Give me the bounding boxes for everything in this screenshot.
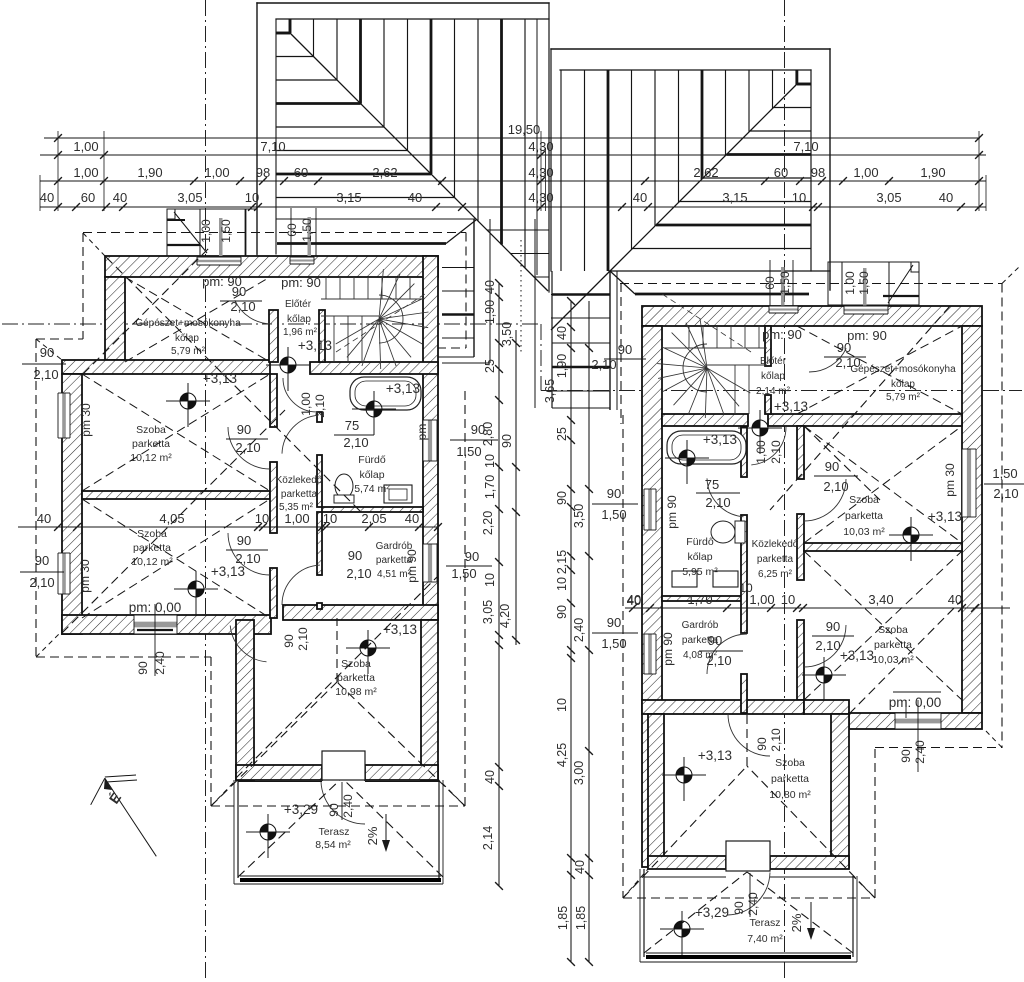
svg-text:Szoba: Szoba (136, 424, 166, 436)
window east upper (bath) (423, 420, 437, 461)
left roof overhang dashed (83, 232, 466, 234)
north arrow (91, 775, 157, 856)
dimension row 19,50 (44, 122, 983, 142)
dim row 40 4,05 10 1,00 10 2,05 40 (18, 511, 442, 531)
svg-text:parketta: parketta (132, 438, 170, 450)
svg-text:1,00: 1,00 (204, 165, 229, 180)
svg-text:1,50: 1,50 (778, 271, 792, 295)
svg-text:1,50: 1,50 (992, 466, 1017, 481)
svg-text:parketta: parketta (874, 639, 912, 651)
svg-text:parketta: parketta (281, 489, 318, 500)
svg-text:Közlekedő: Közlekedő (276, 475, 323, 486)
svg-text:90: 90 (618, 342, 632, 357)
svg-text:90: 90 (232, 284, 246, 299)
right roof corner square (797, 83, 811, 86)
left stair/elater thin wall (319, 310, 325, 362)
left roof rafters (vertical) (290, 19, 525, 268)
right furdo bottom thin wall (662, 596, 746, 601)
right roof projection dashed diagonals (623, 306, 962, 953)
svg-text:40: 40 (633, 190, 647, 205)
svg-text:40: 40 (483, 770, 497, 784)
svg-text:1,00: 1,00 (853, 165, 878, 180)
svg-text:parketta: parketta (337, 672, 375, 684)
right west windows (644, 489, 656, 530)
left roof hip diagonal (290, 33, 548, 291)
svg-text:Szoba: Szoba (775, 757, 805, 769)
svg-text:2,10: 2,10 (33, 367, 58, 382)
svg-text:1,85: 1,85 (574, 906, 588, 930)
svg-text:1,90: 1,90 (555, 354, 569, 378)
svg-text:2,40: 2,40 (572, 618, 586, 642)
left roof projection dashed diagonals (62, 247, 465, 877)
svg-text:+3,13: +3,13 (698, 748, 732, 763)
svg-text:2,14: 2,14 (481, 826, 495, 850)
top dim rows vertical extension lines (40, 131, 986, 211)
svg-text:Fürdő: Fürdő (686, 536, 714, 548)
svg-text:2,62: 2,62 (693, 165, 718, 180)
left stair window dims above wall (285, 208, 316, 256)
svg-text:4,25: 4,25 (555, 743, 569, 767)
left roof corner square (276, 32, 290, 35)
svg-text:3,00: 3,00 (572, 761, 586, 785)
right stair thin wall (765, 326, 771, 366)
left roof joists (horizontal, NW triangle) (276, 33, 455, 198)
left WC (335, 474, 353, 498)
right building east wall (962, 326, 982, 713)
svg-text:60: 60 (774, 165, 788, 180)
left building east wall (423, 256, 438, 620)
axis dash-dot vertical x=784.5 (784, 0, 786, 982)
svg-text:2,10: 2,10 (235, 440, 260, 455)
svg-text:+3,13: +3,13 (203, 371, 237, 386)
svg-text:7,10: 7,10 (793, 139, 818, 154)
svg-text:40: 40 (948, 592, 962, 607)
right WC (711, 521, 735, 543)
svg-text:pm 30: pm 30 (943, 463, 957, 497)
svg-text:pm 90: pm 90 (661, 632, 675, 666)
right stair window dims above wall (763, 260, 793, 306)
svg-text:40: 40 (573, 860, 587, 874)
svg-text:1,00: 1,00 (73, 165, 98, 180)
svg-text:1,96 m²: 1,96 m² (283, 327, 318, 338)
svg-text:10: 10 (323, 511, 337, 526)
svg-text:90: 90 (237, 422, 251, 437)
svg-text:2,40: 2,40 (913, 740, 927, 764)
svg-text:pm: 90: pm: 90 (762, 327, 802, 342)
svg-text:40: 40 (405, 511, 419, 526)
svg-text:pm 30: pm 30 (79, 403, 93, 437)
svg-text:3,05: 3,05 (876, 190, 901, 205)
svg-text:6,25 m²: 6,25 m² (758, 569, 793, 580)
right building top wall (642, 306, 982, 326)
svg-text:1,70: 1,70 (483, 475, 497, 499)
svg-text:Szoba: Szoba (137, 528, 167, 540)
svg-text:10: 10 (483, 454, 497, 468)
dimension fraction lines (window/door labels) (20, 301, 1024, 692)
svg-text:Szoba: Szoba (878, 624, 908, 636)
right bottom room bottom wall (648, 856, 726, 869)
dim row 40 1,70 1,00 10 3,40 40 (625, 592, 1010, 612)
svg-text:pm: pm (415, 424, 429, 441)
svg-text:Terasz: Terasz (750, 917, 781, 929)
left building gardrob bottom wall / step (283, 605, 438, 620)
svg-text:Közlekedő: Közlekedő (752, 539, 799, 550)
svg-text:Gardrób: Gardrób (682, 620, 719, 631)
svg-text:1,50: 1,50 (456, 444, 481, 459)
svg-text:3,05: 3,05 (177, 190, 202, 205)
svg-text:7,40 m²: 7,40 m² (747, 933, 783, 945)
level markers right (665, 440, 709, 484)
svg-text:pm 90: pm 90 (665, 495, 679, 529)
svg-text:pm: 90: pm: 90 (847, 328, 887, 343)
svg-text:90: 90 (348, 548, 362, 563)
middle-left dim chain (481, 279, 520, 890)
left gardrob west wall (317, 512, 322, 575)
svg-text:90: 90 (136, 661, 150, 675)
right roof outer rect (551, 49, 830, 290)
svg-text:parketta: parketta (757, 554, 794, 565)
svg-text:2,10: 2,10 (235, 551, 260, 566)
svg-text:+3,13: +3,13 (298, 338, 332, 353)
svg-text:1,50: 1,50 (300, 218, 314, 242)
svg-text:40: 40 (483, 280, 497, 294)
svg-text:4,20: 4,20 (498, 604, 512, 628)
svg-text:2,20: 2,20 (481, 511, 495, 535)
svg-text:60: 60 (285, 223, 299, 237)
right building west wall (642, 326, 662, 867)
svg-text:+3,29: +3,29 (695, 905, 729, 920)
svg-text:2%: 2% (365, 826, 380, 845)
svg-text:98: 98 (811, 165, 825, 180)
window west upper (58, 393, 70, 438)
right bathtub (667, 431, 746, 464)
svg-text:90: 90 (899, 749, 913, 763)
svg-text:3,50: 3,50 (572, 504, 586, 528)
svg-text:60: 60 (81, 190, 95, 205)
right corridor wall vertical (797, 426, 804, 479)
svg-text:+3,13: +3,13 (774, 399, 808, 414)
svg-text:pm: 0,00: pm: 0,00 (889, 695, 942, 710)
svg-text:+3,13: +3,13 (703, 432, 737, 447)
svg-text:98: 98 (256, 165, 270, 180)
left building room1/eloter divider (269, 310, 278, 362)
left stair winder radials (336, 269, 429, 369)
svg-text:2,80: 2,80 (481, 422, 495, 446)
svg-text:1,00: 1,00 (299, 392, 313, 416)
svg-text:90: 90 (708, 633, 722, 648)
right chimney + window dim structure above top wall (828, 262, 919, 306)
svg-text:Gépészet+mosókonyha: Gépészet+mosókonyha (850, 364, 956, 375)
svg-text:kőlap: kőlap (687, 551, 712, 563)
svg-text:1,50: 1,50 (857, 271, 871, 295)
dashed X diagonals in rooms (82, 277, 962, 700)
right roof overhang dashed (620, 283, 1002, 285)
level markers left (166, 383, 210, 427)
right bottom room west wall (648, 714, 664, 867)
window west lower (58, 553, 70, 594)
svg-text:2,10: 2,10 (993, 486, 1018, 501)
left stair treads upper flight (321, 277, 423, 362)
svg-text:5,79 m²: 5,79 m² (886, 392, 921, 403)
svg-text:2,10: 2,10 (296, 627, 310, 651)
svg-text:2,10: 2,10 (313, 394, 327, 418)
right roof hip diagonal (551, 84, 797, 330)
left bath bottom thin wall (322, 507, 423, 512)
svg-text:40: 40 (113, 190, 127, 205)
svg-text:Fürdő: Fürdő (358, 454, 386, 466)
svg-text:40: 40 (939, 190, 953, 205)
svg-text:1,50: 1,50 (451, 566, 476, 581)
right roof stair-bay edges (551, 271, 553, 408)
svg-text:60: 60 (763, 276, 777, 290)
svg-text:2,05: 2,05 (361, 511, 386, 526)
svg-text:90: 90 (607, 486, 621, 501)
svg-text:90: 90 (755, 737, 769, 751)
left building corridor wall vertical (270, 374, 277, 427)
right overhang dashed outline (623, 266, 1020, 898)
door jamb rect right terrace (726, 841, 770, 871)
left roof eave bold line (277, 242, 446, 245)
left building interior wall rooms2/3 (82, 491, 270, 499)
right stair winder radials (657, 292, 751, 418)
svg-text:2,10: 2,10 (769, 440, 783, 464)
svg-text:2,62: 2,62 (372, 165, 397, 180)
svg-text:90: 90 (732, 901, 746, 915)
svg-text:25: 25 (555, 427, 569, 441)
left chimney + window dim structure above top wall (167, 209, 257, 256)
svg-text:+3,13: +3,13 (383, 622, 417, 637)
left roof SE wedge joists (487, 230, 549, 277)
left washbasin (384, 485, 412, 503)
svg-text:2%: 2% (789, 913, 804, 932)
svg-text:1,00: 1,00 (843, 271, 857, 295)
svg-text:pm 30: pm 30 (78, 559, 92, 593)
svg-text:3,15: 3,15 (336, 190, 361, 205)
svg-text:10,12 m²: 10,12 m² (130, 452, 172, 464)
left roof inner eave right line (536, 19, 538, 275)
svg-text:10: 10 (781, 592, 795, 607)
svg-text:10: 10 (483, 573, 497, 587)
right top windows (769, 306, 798, 313)
right roof eave bold line (635, 293, 809, 296)
svg-text:1,00: 1,00 (199, 219, 213, 243)
right roof rafters (vertical) (561, 70, 796, 271)
right east window (962, 449, 976, 517)
svg-text:1,90: 1,90 (137, 165, 162, 180)
dimension row 4 : 40 60 40 3,05 10 3,15 40 4,30 40 3,15 10 3,05 40 (40, 190, 986, 211)
svg-text:90: 90 (607, 615, 621, 630)
svg-text:3,40: 3,40 (868, 592, 893, 607)
svg-text:90: 90 (826, 619, 840, 634)
svg-text:Szoba: Szoba (849, 494, 879, 506)
left roof bay joists (442, 267, 474, 269)
svg-text:Előtér: Előtér (760, 356, 787, 367)
right rooms divider (804, 543, 962, 551)
right terrace (640, 869, 857, 962)
svg-text:90: 90 (825, 459, 839, 474)
dimension row 3 : 1,00 1,90 1,00 98 60 2,62 4,30 2,62 60 98 1,00 1,90 (40, 165, 986, 185)
svg-text:90: 90 (555, 605, 569, 619)
right gardrob bottom wall (642, 700, 804, 714)
svg-text:3,65: 3,65 (543, 379, 557, 403)
svg-text:3,15: 3,15 (722, 190, 747, 205)
svg-text:90: 90 (555, 491, 569, 505)
right interior divider below stair (662, 414, 748, 426)
left bottom room bottom wall (236, 765, 322, 780)
axis dash-dot vertical x=205.5 (205, 0, 207, 982)
svg-text:1,90: 1,90 (920, 165, 945, 180)
window W1 top wall (197, 257, 241, 265)
svg-text:5,74 m²: 5,74 m² (354, 483, 390, 495)
svg-text:1,00: 1,00 (284, 511, 309, 526)
left roof outer rect (257, 3, 549, 292)
svg-text:Terasz: Terasz (319, 826, 350, 838)
svg-text:pm: 90: pm: 90 (281, 275, 321, 290)
svg-text:kőlap: kőlap (891, 379, 915, 390)
svg-text:75: 75 (345, 418, 359, 433)
svg-text:2,10: 2,10 (706, 653, 731, 668)
left bath corridor wall (317, 412, 322, 422)
svg-text:10: 10 (555, 698, 569, 712)
svg-text:19,50: 19,50 (508, 122, 541, 137)
left building bottom wall (left block) (62, 615, 271, 634)
door arcs right (809, 348, 846, 372)
svg-text:pm 90: pm 90 (405, 549, 419, 583)
svg-text:10: 10 (792, 190, 806, 205)
right wall piece corridor/SE step (804, 700, 849, 714)
svg-text:2,14 m²: 2,14 m² (756, 386, 791, 397)
svg-text:10: 10 (555, 577, 569, 591)
svg-text:10,98 m²: 10,98 m² (335, 686, 377, 698)
left overhang dashed outline (36, 233, 465, 806)
svg-text:2,10: 2,10 (346, 566, 371, 581)
right roof joists (horizontal NE triangle) (633, 84, 812, 249)
window bottom wall left block (134, 615, 177, 634)
svg-text:10,03 m²: 10,03 m² (872, 654, 914, 666)
axis dash-dot horizontal left y=324 with jog to right y=390.5 (2, 323, 541, 325)
left building west wall upper (105, 277, 125, 360)
right washbasins (672, 571, 697, 587)
left bottom room east wall (421, 620, 438, 780)
left bottom room west wall (236, 620, 254, 780)
svg-text:40: 40 (555, 326, 569, 340)
svg-text:7,10: 7,10 (260, 139, 285, 154)
svg-text:1,50: 1,50 (219, 219, 233, 243)
right window bottom block (895, 713, 941, 729)
svg-text:2,15: 2,15 (555, 550, 569, 574)
svg-text:2,10: 2,10 (343, 435, 368, 450)
svg-text:parketta: parketta (845, 510, 883, 522)
svg-text:kőlap: kőlap (761, 371, 785, 382)
svg-text:25: 25 (483, 359, 497, 373)
svg-text:1,00: 1,00 (754, 440, 768, 464)
middle-right dim chain (543, 297, 593, 966)
svg-text:3,05: 3,05 (481, 600, 495, 624)
svg-text:2,10: 2,10 (705, 495, 730, 510)
dimension row 2 : 1,00 7,10 4,30 7,10 (40, 139, 986, 159)
svg-text:90: 90 (237, 533, 251, 548)
right bottom block wall under szoba2 (849, 713, 982, 729)
svg-text:Előtér: Előtér (285, 299, 312, 310)
svg-text:1,90: 1,90 (483, 300, 497, 324)
svg-text:1,85: 1,85 (556, 906, 570, 930)
right bottom room east wall (831, 714, 849, 867)
left building top wall (105, 256, 438, 277)
left building stair bottom wall (310, 362, 438, 374)
svg-text:+3,13: +3,13 (386, 381, 420, 396)
svg-text:8,54 m²: 8,54 m² (315, 839, 351, 851)
svg-text:1,00: 1,00 (73, 139, 98, 154)
right roof SW wedge joists (551, 295, 587, 319)
svg-text:+3,13: +3,13 (211, 564, 245, 579)
svg-text:40: 40 (627, 592, 641, 607)
window W2 top wall (stair) (290, 257, 314, 264)
svg-text:2,10: 2,10 (823, 479, 848, 494)
svg-text:parketta: parketta (771, 773, 809, 785)
svg-text:Gépészet+mosókonyha: Gépészet+mosókonyha (135, 318, 241, 329)
svg-text:2,10: 2,10 (29, 575, 54, 590)
left bathtub (350, 377, 421, 410)
left building step wall y=360 (62, 360, 270, 374)
svg-text:60: 60 (294, 165, 308, 180)
window east lower (gardrob) (423, 544, 437, 582)
svg-text:5,95 m²: 5,95 m² (682, 566, 718, 578)
svg-text:10,03 m²: 10,03 m² (843, 526, 885, 538)
svg-text:90: 90 (500, 434, 514, 448)
right roof bay joists (552, 293, 610, 296)
svg-text:3,50: 3,50 (500, 322, 514, 346)
svg-text:kőlap: kőlap (359, 469, 384, 481)
svg-text:1,00: 1,00 (749, 592, 774, 607)
left roof stair-bay edges (473, 219, 475, 357)
door jamb rect left terrace (322, 751, 365, 780)
door arcs left (235, 300, 272, 324)
svg-text:+3,29: +3,29 (284, 802, 318, 817)
svg-text:1,70: 1,70 (687, 592, 712, 607)
svg-text:90: 90 (35, 553, 49, 568)
svg-text:kőlap: kőlap (287, 314, 311, 325)
svg-text:40: 40 (40, 190, 54, 205)
right bath corridor thin wall (741, 427, 747, 477)
svg-text:10: 10 (255, 511, 269, 526)
svg-text:90: 90 (282, 634, 296, 648)
left terrace (234, 780, 443, 884)
svg-text:40: 40 (37, 511, 51, 526)
left building west wall main (62, 374, 82, 634)
svg-text:90: 90 (465, 549, 479, 564)
svg-text:2,40: 2,40 (746, 892, 760, 916)
svg-text:2,10: 2,10 (769, 728, 783, 752)
svg-text:40: 40 (408, 190, 422, 205)
svg-text:10: 10 (245, 190, 259, 205)
right stair treads upper flight (664, 326, 767, 414)
window dim stub lines (155, 604, 918, 917)
